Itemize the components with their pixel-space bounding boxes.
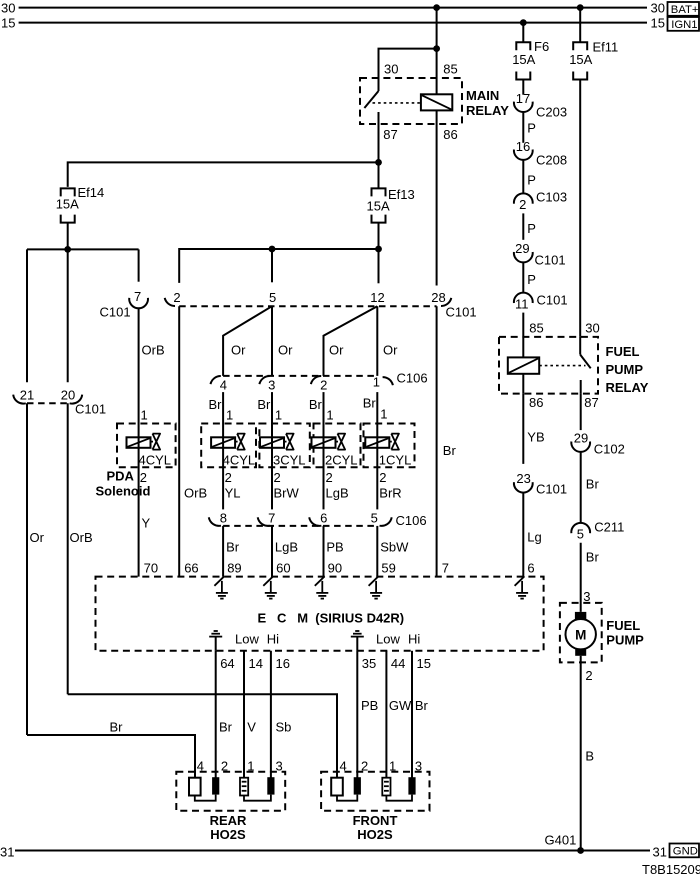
svg-text:17: 17 — [516, 91, 530, 106]
svg-text:C101: C101 — [75, 402, 106, 417]
rear HO2S internal wire 4-2 — [195, 795, 216, 801]
wire YB relay 86 to connector 23 — [523, 394, 544, 464]
svg-text:1: 1 — [380, 406, 387, 421]
svg-text:OrB: OrB — [70, 530, 93, 545]
svg-text:86: 86 — [529, 395, 543, 410]
wire rail 15 (IGN1) — [1, 15, 665, 30]
junction G401 on rail 31 — [545, 833, 584, 854]
injector 4CYL box — [201, 424, 256, 468]
svg-text:Or: Or — [329, 343, 344, 358]
wire pin 12 to C106 pin 1 — [376, 306, 378, 376]
rear HO2S pin 2 terminal — [212, 777, 219, 794]
svg-text:44: 44 — [391, 656, 405, 671]
svg-text:64: 64 — [220, 656, 234, 671]
svg-text:B: B — [585, 749, 594, 764]
svg-text:89: 89 — [227, 561, 241, 576]
sensor FRONT HO2S box — [321, 759, 429, 842]
svg-text:HO2S: HO2S — [210, 827, 246, 842]
wire branch to main relay pin 30 — [379, 49, 437, 91]
wire dashed C106 row 4-3-2-1 — [223, 375, 377, 377]
injector 4CYL coil and valve — [211, 434, 245, 450]
svg-text:1: 1 — [275, 407, 282, 422]
connector C211 pin 5 — [571, 519, 624, 541]
svg-text:Solenoid: Solenoid — [96, 483, 151, 498]
svg-text:66: 66 — [184, 561, 198, 576]
wire Ef13 down — [378, 223, 380, 284]
svg-text:85: 85 — [529, 321, 543, 336]
wire Br C106-3 to injector 3CYL pin 1 — [257, 392, 282, 437]
svg-text:20: 20 — [61, 388, 75, 403]
connector C101 pin 2 — [165, 290, 181, 306]
svg-text:1: 1 — [373, 375, 380, 390]
svg-text:29: 29 — [574, 431, 588, 446]
svg-text:PUMP: PUMP — [606, 362, 644, 377]
front HO2S internal wire 4-2 — [337, 795, 357, 801]
svg-text:Br: Br — [415, 698, 429, 713]
rear HO2S pin 4 terminal — [189, 778, 201, 796]
wire P 2 to 29 — [523, 213, 536, 239]
svg-text:Y: Y — [142, 516, 151, 531]
svg-text:T8B15209: T8B15209 — [642, 862, 700, 877]
main relay switch (pins 30-87) — [364, 91, 378, 124]
svg-text:E C M (SIRIUS D42R): E C M (SIRIUS D42R) — [258, 610, 405, 625]
svg-text:C211: C211 — [594, 519, 624, 534]
connector C101 pin 20 — [61, 388, 106, 417]
svg-text:86: 86 — [443, 127, 457, 142]
svg-text:87: 87 — [383, 127, 397, 142]
wire GW ECM-44 to front HO2S pin 1 — [386, 651, 412, 778]
wire pin 5 to C106 pin 3 — [271, 306, 273, 376]
svg-text:RELAY: RELAY — [606, 380, 649, 395]
svg-text:Sb: Sb — [276, 720, 292, 735]
connector C106 pin 4 — [211, 376, 228, 392]
svg-text:C101: C101 — [100, 305, 131, 320]
junction below Ef14 — [64, 246, 71, 253]
svg-text:30: 30 — [1, 0, 15, 15]
rear HO2S pin 1 heater terminal — [240, 778, 248, 796]
ECM shield ground above pin 35 — [351, 631, 364, 651]
svg-text:4: 4 — [340, 759, 347, 774]
svg-text:30: 30 — [651, 1, 665, 16]
svg-text:P: P — [527, 120, 536, 135]
ECM pin labels bottom — [220, 656, 431, 671]
wire PB C106-6 to ECM pin 90 — [324, 526, 344, 577]
svg-text:30: 30 — [585, 321, 599, 336]
junction on rail 15 at F6 — [520, 19, 527, 26]
svg-text:IGN1: IGN1 — [671, 19, 697, 31]
svg-text:5: 5 — [269, 290, 276, 305]
svg-text:Br: Br — [586, 550, 600, 565]
wire P 29 to 11 — [523, 262, 536, 292]
wire Br C106-8 to ECM pin 89 — [223, 526, 240, 577]
wire C101-7 OrB to PDA solenoid — [139, 308, 165, 437]
relay MAIN RELAY box — [360, 62, 509, 142]
svg-text:YB: YB — [527, 430, 544, 445]
svg-text:C203: C203 — [536, 104, 567, 119]
injector 3CYL box — [259, 424, 309, 468]
front HO2S pin 1 heater terminal — [382, 778, 390, 796]
wire P 16 to 2 — [523, 160, 536, 193]
wire Br C106-4 to injector 4CYL pin 1 — [209, 392, 234, 437]
wire rail30 to main relay coil pin 85 — [436, 8, 438, 95]
svg-text:PB: PB — [326, 540, 343, 555]
svg-text:85: 85 — [443, 62, 457, 77]
svg-text:6: 6 — [320, 510, 327, 525]
svg-text:3CYL: 3CYL — [273, 453, 306, 468]
svg-text:Br: Br — [226, 540, 240, 555]
svg-text:G401: G401 — [545, 833, 577, 848]
svg-text:14: 14 — [249, 656, 263, 671]
wire rail 31 (GND) — [0, 845, 667, 860]
svg-text:P: P — [527, 272, 536, 287]
fuse Ef11 15A — [569, 40, 618, 80]
svg-text:1: 1 — [247, 759, 254, 774]
connector C106 pin 3 — [259, 376, 275, 392]
wire dashed C106 row 8-7-6-5 — [223, 525, 377, 527]
connector C101 pin 28 — [431, 290, 476, 320]
svg-text:Br: Br — [257, 397, 271, 412]
connector C106 pin 8 — [209, 510, 227, 526]
svg-text:Br: Br — [110, 720, 124, 735]
svg-text:59: 59 — [381, 561, 395, 576]
wire C101 pin 2 to ECM pin 66 — [179, 306, 207, 576]
injector 1CYL box — [364, 424, 415, 468]
wire Br ECM-15 to front HO2S pin 3 — [412, 651, 429, 778]
junction on rail 30 at main relay feed — [433, 4, 440, 11]
wire Ef11 to fuel pump relay pin 30 — [580, 80, 600, 337]
svg-text:Hi: Hi — [267, 632, 279, 647]
svg-text:Lg: Lg — [527, 530, 541, 545]
svg-text:4: 4 — [220, 377, 227, 392]
wire tap down to pin 5 — [271, 249, 273, 282]
connector C101 pin 7 — [100, 289, 149, 319]
injector 1CYL coil and valve — [365, 434, 399, 450]
svg-text:C101: C101 — [535, 253, 566, 268]
wire pin 20 to front HO2S pin 4 — [68, 403, 337, 777]
svg-text:Ef13: Ef13 — [388, 187, 415, 202]
svg-text:2: 2 — [379, 470, 386, 485]
fuse F6 15A — [512, 39, 549, 79]
svg-text:3: 3 — [276, 759, 283, 774]
ECM pin labels top — [144, 561, 535, 576]
svg-text:OrB: OrB — [184, 486, 207, 501]
fuel pump relay coil-switch link — [539, 365, 585, 367]
svg-text:Br: Br — [219, 720, 233, 735]
wire P 17 to 16 — [523, 112, 536, 143]
svg-text:C106: C106 — [396, 513, 427, 528]
rear HO2S internal wire 1-3 — [244, 795, 271, 801]
fuel pump relay coil (pins 85-86) — [508, 337, 539, 394]
wire rail15 to fuse F6 — [522, 23, 524, 43]
wire Br C211-5 to fuel pump pin 3 — [581, 543, 600, 612]
wire injector 3CYL pin 2 BrW to C106 pin 7 — [272, 448, 300, 510]
svg-text:8: 8 — [220, 510, 227, 525]
connector C101 pin 11 — [514, 293, 568, 312]
svg-text:1: 1 — [326, 407, 333, 422]
svg-text:P: P — [527, 172, 536, 187]
svg-text:Or: Or — [278, 343, 293, 358]
wire Br C106-2 to injector 2CYL pin 1 — [309, 392, 334, 437]
svg-text:LgB: LgB — [275, 540, 298, 555]
wire relay 87 to connector 29 — [580, 394, 582, 431]
front HO2S pin 3 terminal — [408, 777, 415, 794]
svg-text:MAIN: MAIN — [466, 88, 499, 103]
svg-text:5: 5 — [577, 527, 584, 542]
svg-text:2CYL: 2CYL — [325, 453, 358, 468]
svg-text:PDA: PDA — [107, 468, 135, 483]
sensor REAR HO2S box — [176, 759, 285, 842]
svg-text:Or: Or — [231, 343, 246, 358]
svg-text:3: 3 — [268, 377, 275, 392]
wire dashed C101 2-28 — [179, 305, 436, 307]
svg-text:C102: C102 — [594, 442, 625, 457]
wire main relay 87 down — [378, 124, 380, 189]
connector C106 pin 6 — [309, 510, 327, 526]
svg-text:V: V — [247, 720, 256, 735]
svg-text:87: 87 — [584, 395, 598, 410]
svg-text:23: 23 — [516, 471, 530, 486]
svg-text:Ef11: Ef11 — [593, 40, 619, 55]
front HO2S pin 4 terminal — [331, 778, 343, 796]
wire Lg C101-23 to ECM pin 6 — [523, 493, 541, 577]
injector 3CYL coil and valve — [260, 434, 294, 450]
ECM label Low Hi front — [376, 632, 420, 647]
ECM label Low Hi rear — [235, 632, 279, 647]
injector 2CYL coil and valve — [312, 434, 346, 450]
svg-text:RELAY: RELAY — [466, 103, 509, 118]
svg-text:31: 31 — [0, 845, 14, 860]
ECM driver and ground at pin 6 — [515, 576, 529, 598]
svg-text:P: P — [527, 221, 536, 236]
solenoid PDA coil and valve — [127, 434, 161, 450]
ECM driver and ground at pin 60 — [263, 576, 277, 598]
wire Br ECM-64 to rear HO2S pin 2 — [216, 651, 233, 778]
svg-text:21: 21 — [20, 388, 34, 403]
svg-text:2: 2 — [326, 470, 333, 485]
ECM driver and ground at pin 89 — [214, 576, 228, 598]
connector C106 pin 7 — [258, 510, 276, 526]
svg-text:Br: Br — [443, 443, 457, 458]
wire dashed C101 21-20 — [27, 402, 68, 404]
svg-text:7: 7 — [268, 510, 275, 525]
svg-text:Br: Br — [209, 397, 223, 412]
svg-text:1: 1 — [226, 407, 233, 422]
junction 87 branch — [375, 159, 382, 166]
wire 11 to fuel pump relay pin 85 — [523, 313, 543, 337]
wire branch to C101 pin 21 — [26, 249, 28, 382]
wire Br C102-29 to C211 — [581, 452, 600, 523]
svg-text:1CYL: 1CYL — [379, 453, 412, 468]
ECM box — [96, 577, 544, 651]
wire injector 4CYL pin 2 YL to C106 pin 8 — [223, 448, 240, 510]
svg-text:2: 2 — [225, 470, 232, 485]
svg-text:15: 15 — [417, 656, 431, 671]
svg-text:15A: 15A — [56, 197, 79, 212]
svg-text:4: 4 — [197, 759, 204, 774]
svg-text:16: 16 — [516, 139, 530, 154]
main relay coil (pins 85-86) — [421, 94, 452, 110]
svg-text:2: 2 — [274, 470, 281, 485]
node IGN1 — [668, 17, 700, 31]
svg-text:15: 15 — [1, 15, 15, 30]
svg-text:SbW: SbW — [380, 540, 409, 555]
front HO2S internal wire 1-3 — [386, 795, 412, 801]
svg-text:2: 2 — [140, 470, 147, 485]
motor FUEL PUMP M — [566, 612, 596, 656]
connector C106 pin 2 — [311, 376, 328, 392]
wire Ef14 to junction — [67, 223, 69, 250]
wire LgB C106-7 to ECM pin 60 — [272, 526, 298, 577]
svg-text:Low: Low — [235, 632, 259, 647]
wire F6 to connector 17 — [522, 80, 524, 95]
svg-text:2: 2 — [221, 759, 228, 774]
wire injector 1CYL pin 2 BrR to C106 pin 5 — [377, 448, 401, 510]
svg-text:15A: 15A — [512, 52, 535, 67]
svg-text:6: 6 — [527, 561, 534, 576]
svg-text:PUMP: PUMP — [606, 632, 644, 647]
svg-text:7: 7 — [134, 289, 141, 304]
svg-text:90: 90 — [328, 561, 342, 576]
wire injector 2CYL pin 2 LgB to C106 pin 6 — [324, 448, 349, 510]
svg-text:C101: C101 — [537, 293, 568, 308]
svg-text:PB: PB — [361, 698, 378, 713]
svg-text:15A: 15A — [367, 199, 390, 214]
svg-text:7: 7 — [442, 561, 449, 576]
svg-text:C101: C101 — [446, 305, 477, 320]
svg-text:3: 3 — [583, 589, 590, 604]
svg-text:70: 70 — [144, 561, 158, 576]
rear HO2S pin 3 terminal — [267, 777, 274, 794]
wire branch to C101 pin 7 — [138, 249, 140, 281]
wire branch to Ef14 — [68, 162, 379, 187]
connector C208 pin 16 — [514, 139, 567, 167]
node GND — [670, 844, 700, 858]
fuse Ef14 15A — [56, 185, 105, 223]
svg-text:C101: C101 — [536, 481, 567, 496]
svg-text:Low: Low — [376, 632, 400, 647]
svg-text:15: 15 — [651, 16, 665, 31]
wire Sb ECM-16 to rear HO2S pin 3 — [271, 651, 292, 778]
svg-text:Hi: Hi — [408, 632, 420, 647]
connector C102 pin 29 — [571, 431, 625, 457]
svg-text:2: 2 — [173, 290, 180, 305]
junction below Ef13 — [375, 246, 382, 253]
svg-text:2: 2 — [585, 668, 592, 683]
svg-text:FUEL: FUEL — [606, 618, 640, 633]
svg-text:Ef14: Ef14 — [78, 185, 105, 200]
motor FUEL PUMP box — [560, 603, 644, 663]
svg-text:BAT+: BAT+ — [671, 4, 699, 16]
svg-text:5: 5 — [371, 510, 378, 525]
svg-text:16: 16 — [276, 656, 290, 671]
svg-text:12: 12 — [370, 290, 384, 305]
wire Br C106-1 to injector 1CYL pin 1 — [363, 392, 388, 437]
svg-text:C103: C103 — [536, 190, 567, 205]
wire SbW C106-5 to ECM pin 59 — [377, 526, 409, 577]
connector C106 pin 1 — [373, 371, 428, 390]
main relay coil-switch link — [373, 102, 421, 104]
svg-text:2: 2 — [519, 197, 526, 212]
wire pin 5 to C106 pin 4 — [223, 306, 272, 376]
svg-text:YL: YL — [225, 486, 241, 501]
wire branch to C101 pin 20 — [67, 249, 69, 382]
fuse Ef13 15A — [367, 187, 415, 223]
wire Ef13 output to C101 pins 2 and 5 — [179, 249, 378, 283]
injector 2CYL box — [314, 424, 361, 468]
wire Or labels on injector feeds — [231, 343, 398, 358]
ECM shield ground above pin 64 — [209, 631, 222, 651]
wire V ECM-14 to rear HO2S pin 1 — [244, 651, 256, 778]
junction on rail 30 at Ef11 — [577, 4, 584, 11]
svg-text:35: 35 — [362, 656, 376, 671]
svg-text:2: 2 — [320, 377, 327, 392]
svg-text:Or: Or — [383, 343, 398, 358]
svg-text:FRONT: FRONT — [353, 813, 398, 828]
wire Ef14 output header — [27, 248, 139, 250]
solenoid PDA box — [96, 424, 176, 499]
wire main relay 86 to C101 pin 28 — [436, 110, 438, 285]
wire rail30 to fuse Ef11 — [579, 8, 581, 43]
junction tap to C101 pin 5 — [269, 246, 276, 253]
svg-text:Br: Br — [586, 477, 600, 492]
ECM driver and ground at pin 90 — [315, 576, 329, 598]
wire pin 12 to C106 pin 2 — [324, 306, 378, 376]
ECM driver and ground at pin 59 — [369, 576, 383, 598]
svg-text:60: 60 — [276, 561, 290, 576]
svg-text:M: M — [575, 627, 586, 642]
junction feed split to pin 30 — [433, 45, 440, 52]
svg-text:BrR: BrR — [379, 486, 401, 501]
svg-text:15A: 15A — [569, 52, 592, 67]
svg-text:1: 1 — [141, 408, 148, 423]
svg-text:Br: Br — [363, 396, 377, 411]
svg-text:29: 29 — [515, 241, 529, 256]
svg-text:HO2S: HO2S — [357, 827, 393, 842]
connector C101 pin 23 — [514, 471, 567, 496]
svg-text:2: 2 — [361, 759, 368, 774]
svg-text:BrW: BrW — [274, 486, 300, 501]
svg-text:OrB: OrB — [142, 343, 165, 358]
front HO2S pin 2 terminal — [354, 777, 361, 794]
wire rail 30 (BAT+) — [1, 0, 665, 15]
wire PDA pin 2 Y to ECM pin 70 — [139, 448, 151, 577]
wire B fuel pump pin 2 to G401 — [581, 656, 594, 851]
svg-text:F6: F6 — [534, 39, 549, 54]
svg-text:GND: GND — [673, 846, 698, 858]
connector C101 pin 29 — [514, 241, 566, 268]
connector C103 pin 2 — [514, 190, 567, 212]
svg-text:11: 11 — [515, 296, 529, 311]
connector C101 pin 21 — [13, 388, 34, 404]
svg-text:C106: C106 — [397, 371, 428, 386]
fuel pump relay switch (pins 30-87) — [580, 337, 591, 394]
svg-text:GW: GW — [389, 698, 412, 713]
connector C106 pin 5 — [371, 510, 427, 528]
svg-text:Or: Or — [30, 530, 45, 545]
svg-text:LgB: LgB — [326, 486, 349, 501]
svg-text:Br: Br — [309, 397, 323, 412]
svg-text:REAR: REAR — [210, 813, 247, 828]
svg-text:31: 31 — [653, 845, 667, 860]
svg-text:C208: C208 — [536, 152, 567, 167]
connector C203 pin 17 — [514, 91, 567, 119]
svg-text:28: 28 — [431, 290, 445, 305]
svg-text:4CYL: 4CYL — [139, 453, 172, 468]
wire pin 21 to rear HO2S pin 4 — [27, 403, 195, 777]
svg-text:FUEL: FUEL — [606, 344, 640, 359]
wire PB ECM-35 to front HO2S pin 2 — [357, 651, 378, 778]
svg-text:4CYL: 4CYL — [223, 453, 256, 468]
